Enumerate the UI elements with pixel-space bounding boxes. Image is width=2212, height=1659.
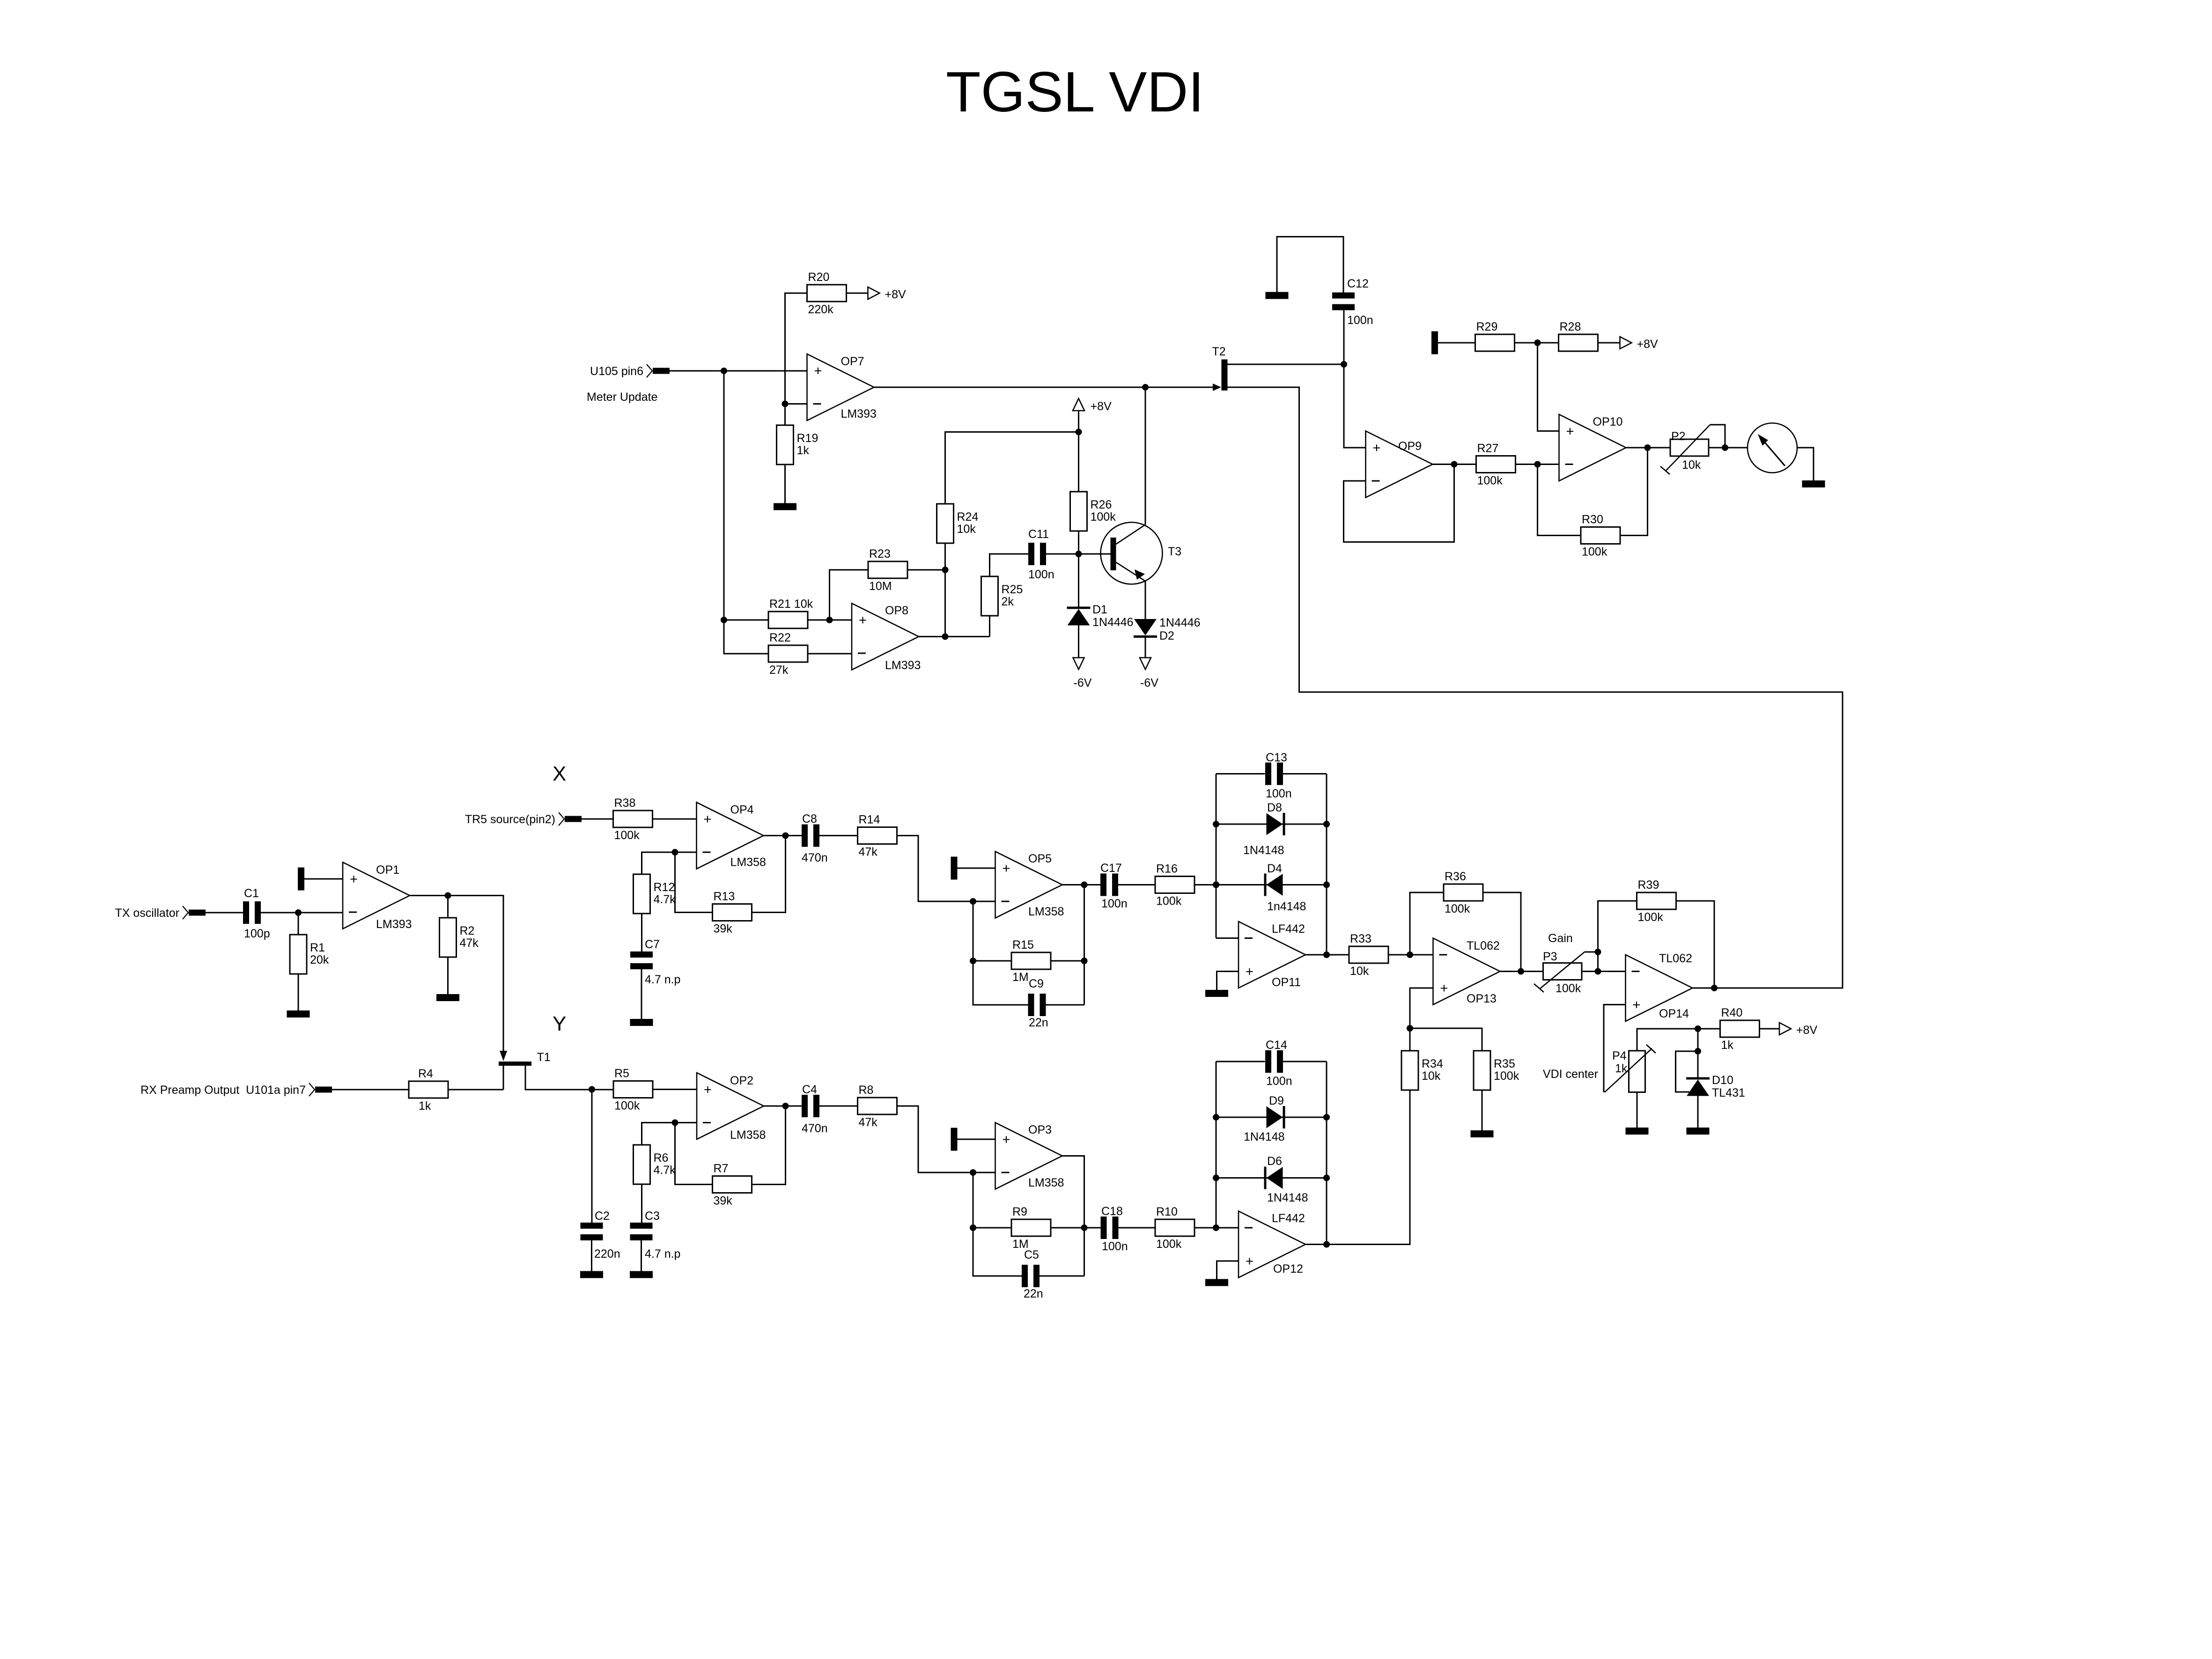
diode D8 1N4148 [1243,801,1285,857]
svg-text:470n: 470n [802,1122,828,1135]
wire OP9 feedback loop [1344,465,1454,542]
resistor R38 [613,796,653,842]
junction R21 / R23 node [826,617,833,623]
wire minus node down to R19 [784,404,786,426]
svg-text:P4: P4 [1612,1049,1627,1062]
resistor R8 [858,1084,897,1129]
svg-text:47k: 47k [460,936,479,950]
wire X block left rail [1216,774,1217,938]
wire node U105 down to R21/R22 [723,371,725,620]
label C9 [1029,977,1048,1029]
svg-text:X: X [553,762,566,785]
svg-text:+: + [1373,441,1381,456]
svg-text:100k: 100k [614,829,640,842]
wire stub to OP1 + [304,878,343,880]
svg-text:C9: C9 [1029,977,1044,990]
wire OP2 minus [675,1122,697,1123]
op-amp OP14 TL062 [1626,952,1693,1021]
svg-text:47k: 47k [859,1116,878,1129]
resistor R7 [713,1162,752,1208]
svg-text:TR5 source(pin2): TR5 source(pin2) [465,813,555,826]
wire R4 to T1 [448,1089,503,1091]
wire minus node to R6 [642,1123,675,1145]
svg-text:C18: C18 [1101,1205,1123,1218]
svg-text:R5: R5 [614,1067,629,1080]
wire left rail to OP11 minus [1216,937,1239,939]
op-amp OP2 LM358 [697,1073,766,1142]
op-amp OP3 LM358 [995,1123,1064,1190]
svg-text:R1: R1 [310,941,325,954]
svg-text:R38: R38 [614,796,636,810]
wire R39 to OP14 output [1676,901,1715,988]
wire OP12 output [1305,1244,1327,1245]
svg-text:+8V: +8V [1796,1024,1818,1037]
junction VDI divider node [1407,1025,1413,1032]
junction OP7 output to T3 collector [1142,384,1149,391]
svg-text:R36: R36 [1445,870,1466,883]
wire stub to R29 [1438,342,1475,344]
label Gain [1548,932,1573,945]
svg-text:Gain: Gain [1548,932,1573,945]
diode D2 1N4446 [1134,619,1157,638]
wire to R21 [724,619,769,621]
wire T3 emitter down to D2 [1145,581,1146,619]
wire T2 drain to hold node [1228,364,1344,365]
power -6V under D1 [1073,658,1092,690]
wire U105 pin6 to OP7 + input [670,370,807,372]
resistor R5 [613,1067,653,1113]
capacitor C4 [802,1083,828,1135]
svg-text:C7: C7 [645,938,660,951]
wire D4 row [1216,884,1327,885]
wire R39 branch [1598,901,1637,972]
wire R15 right [1051,960,1084,962]
wire R35 to ground [1482,1090,1483,1130]
svg-text:100k: 100k [1582,546,1607,559]
svg-text:D10: D10 [1712,1074,1733,1087]
svg-text:R4: R4 [418,1067,433,1080]
wire minus node to OP7 [785,403,807,405]
wire OP4 minus [675,852,697,853]
ground at OP12 + [1205,1279,1228,1286]
resistor R12 [634,874,676,914]
wire R8 to OP3 minus [897,1106,995,1172]
svg-text:D1: D1 [1092,603,1107,616]
svg-text:D9: D9 [1269,1094,1284,1107]
junction OP5 output [1081,882,1088,888]
resistor R27 [1476,442,1516,487]
ground at C12 [1266,292,1289,299]
resistor R23 [868,547,907,593]
svg-text:D8: D8 [1267,801,1282,814]
svg-text:2k: 2k [1002,595,1014,608]
power +8V at R40 [1779,1023,1818,1037]
terminal stub at OP3 + [951,1128,958,1151]
svg-text:R9: R9 [1012,1205,1027,1218]
wire OP3 output [1062,1156,1084,1276]
svg-text:R21 10k: R21 10k [769,597,813,611]
wire P2 wiper [1710,425,1725,448]
junction D6 left [1213,1175,1219,1181]
wire meter to ground [1797,448,1814,480]
junction OP1 output at R2 [445,892,451,899]
svg-text:4.7 n.p: 4.7 n.p [645,973,680,986]
junction OP10 minus node [1534,461,1541,468]
ground under C7 [630,1019,653,1026]
terminal stub at OP1 + [298,868,304,891]
wire C4 to R8 [819,1106,858,1107]
svg-text:1k: 1k [419,1099,431,1113]
resistor R9 [1011,1205,1051,1251]
junction OP8 output at R24 rail [942,634,949,640]
resistor R21 [768,597,813,628]
svg-text:D2: D2 [1159,629,1174,642]
svg-text:C13: C13 [1266,751,1287,764]
svg-text:100n: 100n [1347,314,1373,327]
capacitor C3 [630,1223,653,1240]
wire minus node to R12 [642,852,675,874]
ground at OP11 + [1205,990,1228,997]
svg-text:T3: T3 [1168,545,1181,558]
wire R15 left [973,960,1011,962]
capacitor C18 [1101,1205,1128,1253]
wire R22 to OP8 minus [807,653,852,655]
svg-text:R16: R16 [1156,863,1178,876]
wire OP14 output [1693,988,1715,989]
wire OP11 + to ground [1217,972,1239,990]
junction OP4 minus node [672,849,678,855]
svg-text:1k: 1k [1721,1039,1734,1052]
connector TX oscillator [115,906,206,920]
svg-text:100k: 100k [1638,911,1664,924]
label D2 1N4446 [1159,616,1201,642]
wire OP12 + to ground [1217,1261,1239,1279]
op-amp OP12 LF442 [1239,1211,1305,1278]
resistor R26 [1070,492,1116,531]
svg-text:1M: 1M [1012,971,1029,984]
op-amp OP4 LM358 [697,803,766,869]
resistor R40 [1720,1006,1760,1052]
svg-text:100k: 100k [1556,982,1581,995]
op-amp OP5 LM358 [995,852,1064,919]
svg-text:TL062: TL062 [1467,939,1500,952]
wire P2 to junction [1709,447,1725,449]
junction at R21 branch [721,617,727,623]
op-amp OP10 [1559,414,1626,481]
junction P3 wiper [1595,949,1601,955]
resistor R1 [290,935,329,974]
wire minus node down to R13 [675,852,713,913]
svg-text:100n: 100n [1101,897,1128,910]
svg-text:+: + [1003,1132,1010,1147]
svg-text:+: + [1633,998,1641,1013]
wire stub to OP3 + [958,1139,995,1140]
wire C11 to T3 base node [1046,553,1111,555]
svg-text:T2: T2 [1212,345,1226,358]
junction OP7 minus node [782,401,789,407]
label C5 [1024,1248,1043,1300]
svg-text:1N4148: 1N4148 [1243,844,1284,857]
transistor T1 switch [499,1051,551,1066]
ground under D10 [1687,1128,1710,1135]
svg-text:TX oscillator: TX oscillator [115,907,179,920]
wire OP4 output [764,835,802,836]
wire OP14 + to P4 wiper [1604,1005,1626,1092]
wire C14 row right [1283,1061,1327,1062]
junction R24 rail at R23 [942,567,949,573]
svg-text:OP5: OP5 [1028,852,1052,865]
svg-text:+: + [1246,965,1253,980]
wire R13 to OP4 output [752,836,786,913]
wire minus node down to R7 [675,1123,713,1185]
svg-text:R27: R27 [1477,442,1499,455]
wire D6 row [1216,1177,1327,1179]
meter M1 [1747,423,1797,473]
wire R19 to ground [784,465,786,503]
junction OP2 output [782,1103,789,1109]
svg-text:100n: 100n [1102,1240,1128,1253]
resistor R28 [1559,320,1598,351]
junction OP10 output [1644,444,1651,451]
junction OP3 minus node [970,1169,976,1176]
wire R27 to OP10 minus [1516,464,1559,465]
svg-text:LM358: LM358 [730,1128,766,1142]
wire C5 right [1040,1276,1084,1277]
wire D10 column [1697,1029,1699,1077]
ground at meter [1802,480,1825,487]
capacitor C5 [1022,1265,1040,1287]
label D10 TL431 [1712,1074,1745,1099]
wire OP8 output [919,636,990,637]
wire R38 to OP4 + [653,818,697,820]
svg-text:20k: 20k [310,953,329,966]
svg-text:1N4148: 1N4148 [1267,1191,1308,1204]
svg-text:D6: D6 [1267,1155,1282,1168]
svg-text:C3: C3 [645,1209,660,1223]
svg-text:LM393: LM393 [885,659,921,672]
label VDI center [1543,1068,1598,1081]
potentiometer P4 [1605,1045,1656,1092]
junction hold node [1341,361,1347,368]
resistor R24 [937,504,979,543]
junction OP5 minus node [970,898,976,905]
capacitor C11 [1028,528,1054,581]
resistor R25 [981,576,1023,616]
svg-text:C2: C2 [595,1209,610,1223]
power +8V above R26 [1073,398,1112,413]
svg-text:100k: 100k [1091,510,1116,524]
wire D10 to ground [1697,1096,1699,1128]
svg-text:P3: P3 [1543,950,1557,963]
junction R40 row at D10 [1695,1025,1701,1032]
wire C7 to ground [641,969,642,1019]
svg-text:470n: 470n [802,851,828,864]
wire R16 to X detector node [1195,884,1267,885]
power -6V under D2 [1140,658,1158,690]
svg-text:C17: C17 [1100,862,1122,875]
wire RX to R4 [332,1089,409,1091]
power +8V at R28 [1620,337,1659,351]
wire R1 to ground [298,974,299,1010]
svg-text:OP10: OP10 [1593,415,1623,428]
svg-text:4.7 n.p: 4.7 n.p [645,1247,680,1261]
wire R23 to R24 rail [907,569,945,571]
wire P4 to ground [1637,1092,1638,1128]
ground under R1 [287,1010,310,1018]
wire R34 down to OP12 output [1305,1090,1410,1245]
wire minus node down [973,901,1028,1005]
svg-text:R2: R2 [460,924,475,937]
junction D8 right [1323,821,1330,827]
op-amp OP1 LM393 [343,863,412,931]
wire R6 to C3 [641,1184,642,1223]
resistor R10 [1155,1205,1194,1251]
svg-text:R22: R22 [769,631,791,644]
wire hold node up to C12 [1343,310,1345,365]
wire P2 out to meter [1725,447,1747,449]
wire hold node to OP9 + [1344,364,1366,448]
capacitor C8 [802,812,828,864]
wire P4 top to R40 row [1637,1029,1698,1051]
transistor T3 [1101,523,1182,584]
junction P2 wiper to meter [1722,444,1728,451]
svg-text:10k: 10k [957,523,976,536]
svg-text:R14: R14 [859,813,880,826]
svg-text:39k: 39k [714,922,733,936]
junction D4 right [1323,882,1330,888]
wire X block right rail [1326,774,1327,955]
resistor R13 [713,890,752,936]
wire R21 to OP8 + node [807,619,852,621]
svg-text:TL062: TL062 [1659,952,1692,965]
svg-text:VDI center: VDI center [1543,1068,1598,1081]
junction Y detector node [1213,1224,1219,1231]
svg-text:R29: R29 [1476,320,1498,333]
wire C1 to OP1 minus [261,912,343,914]
svg-text:10M: 10M [869,580,892,593]
svg-text:OP13: OP13 [1467,992,1497,1005]
capacitor C14 [1265,1050,1283,1073]
svg-text:R26: R26 [1091,498,1112,511]
svg-text:R8: R8 [859,1084,874,1097]
label C7 [645,938,680,986]
wire OP1 output to T1 gate [410,896,503,1052]
wire minus node down to R30 [1538,465,1581,536]
svg-text:+: + [704,1083,712,1098]
diode D4 1n4148 [1264,862,1306,913]
wire node to R34 [1409,1028,1411,1051]
svg-text:OP12: OP12 [1273,1262,1303,1276]
wire C17 to R16 [1118,884,1155,885]
junction OP12 output [1323,1241,1330,1248]
junction OP14 output [1711,985,1718,991]
svg-text:4.7k: 4.7k [654,893,676,906]
resistor R14 [858,813,897,859]
junction D9 left [1213,1114,1219,1121]
terminal stub at OP5 + [951,857,958,880]
diode D6 1N4148 [1264,1155,1308,1204]
wire T2 source down [1228,387,1843,988]
diode D10 TL431 [1686,1077,1710,1096]
op-amp OP7 LM393 [807,354,877,420]
wire OP2 output [764,1106,802,1107]
svg-text:1N4148: 1N4148 [1244,1130,1285,1143]
wire Y block right rail [1326,1062,1327,1245]
ground under R35 [1471,1130,1494,1137]
label X [553,762,566,785]
svg-text:C11: C11 [1028,528,1049,541]
svg-text:100k: 100k [1445,902,1470,915]
wire R23 branch up [830,570,869,620]
svg-text:+8V: +8V [885,288,907,301]
resistor R22 [768,631,808,677]
svg-text:OP3: OP3 [1028,1123,1052,1136]
op-amp OP11 LF442 [1239,922,1305,989]
svg-text:R15: R15 [1012,938,1034,951]
junction D4 left [1213,882,1219,888]
label Meter Update [587,391,657,404]
wire R29 to R28 [1515,342,1559,344]
resistor R16 [1155,863,1194,908]
junction minus rail at R9 [970,1224,976,1231]
ground under C2 [580,1271,603,1278]
svg-text:R25: R25 [1002,583,1023,596]
wire OP13 + down [1410,988,1433,1028]
svg-text:OP7: OP7 [841,355,864,368]
svg-text:1n4148: 1n4148 [1267,900,1306,913]
svg-text:+: + [704,812,712,827]
wire R25 to C11 [990,554,1029,576]
svg-text:C8: C8 [802,812,817,826]
svg-text:C14: C14 [1266,1039,1287,1052]
wire R14 to OP5 minus [897,836,995,902]
svg-text:P2: P2 [1671,430,1686,443]
junction R29/R28 node [1534,339,1541,346]
wire node to R1 [298,913,299,935]
wire OP10 output [1626,447,1671,449]
svg-text:C1: C1 [244,887,259,900]
wire OP8 out up to R25 [989,616,990,637]
svg-text:LF442: LF442 [1272,1212,1305,1225]
capacitor C9 [1028,994,1046,1016]
wire T1 left channel [503,1066,504,1090]
svg-text:TGSL VDI: TGSL VDI [946,60,1204,124]
svg-text:10k: 10k [1422,1069,1441,1083]
wire D2 to -6V [1145,638,1146,658]
wire R30 to output [1621,448,1648,536]
junction OP13 output [1518,968,1524,975]
junction R33/OP13 node [1407,951,1413,958]
resistor R20 [807,271,847,316]
connector TR5 source(pin2) [465,812,582,826]
svg-text:+: + [859,613,867,628]
label C12 [1347,277,1373,327]
svg-text:OP2: OP2 [730,1074,753,1087]
wire C8 to R14 [819,835,858,836]
junction OP4 output [782,833,789,839]
junction P3 output node [1595,968,1601,975]
svg-text:10k: 10k [1682,458,1701,472]
svg-text:C5: C5 [1024,1248,1039,1261]
svg-text:22n: 22n [1029,1016,1048,1029]
resistor R29 [1475,320,1515,351]
svg-text:T1: T1 [537,1051,551,1064]
svg-text:+: + [1003,861,1010,876]
svg-text:R40: R40 [1721,1006,1743,1019]
svg-text:-6V: -6V [1140,677,1158,690]
svg-text:R34: R34 [1422,1057,1443,1070]
wire node to R2 [447,896,449,918]
